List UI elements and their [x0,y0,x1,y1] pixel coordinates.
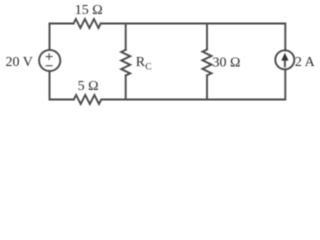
wire left-bottom segment [50,71,74,99]
minus sign [46,65,52,67]
svg-text:30 Ω: 30 Ω [213,55,241,70]
svg-text:2 A: 2 A [295,55,315,70]
resistor R 30ohm zigzag [203,50,212,76]
wire 30ohm branch top [206,24,208,50]
current source arrow head [281,53,288,61]
current source arrow shaft [284,58,286,66]
resistor R 5ohm zigzag [74,95,102,104]
wire bottom segment right of 5ohm [101,70,285,100]
voltage source V1 20V circle [39,50,60,71]
wire top-left segment [50,24,74,50]
plus sign [46,54,52,60]
svg-text:15 Ω: 15 Ω [75,3,103,18]
resistor RC zigzag [121,50,130,76]
svg-text:5 Ω: 5 Ω [78,79,99,94]
current source I1 2A circle [275,50,294,69]
svg-text:C: C [145,63,151,73]
resistor R 15ohm zigzag [74,19,101,28]
wire RC branch bottom [125,76,127,100]
wire 30ohm branch bottom [206,75,208,99]
wire top segment right of 15ohm [101,24,286,51]
svg-text:20 V: 20 V [6,55,33,70]
wire RC branch top [125,24,127,50]
